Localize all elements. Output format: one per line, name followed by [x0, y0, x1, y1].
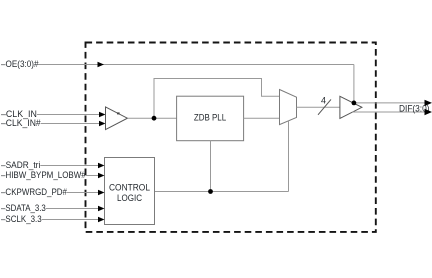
svg-text:LOGIC: LOGIC [117, 193, 142, 203]
arrowhead on OE wire [98, 62, 105, 67]
svg-text:–SADR_tri: –SADR_tri [1, 160, 40, 170]
wire DIF complement output [353, 111, 426, 113]
svg-text:–CLK_IN#: –CLK_IN# [1, 118, 41, 128]
svg-text:–SCLK_3.3: –SCLK_3.3 [1, 214, 42, 224]
wire control logic output bus [155, 191, 289, 193]
input buffer (differential receiver) [106, 107, 128, 130]
arrowhead SADR_tri [98, 163, 105, 168]
wire CLK_IN [37, 114, 100, 116]
svg-text:–SDATA_3.3: –SDATA_3.3 [1, 203, 46, 213]
wire SADR_tri [40, 165, 99, 167]
wire HIBW_BYPM_LOBW# [86, 175, 99, 177]
wire bypass path up and over to mux [154, 79, 280, 119]
mux [280, 90, 297, 125]
junction dot control to PLL [208, 189, 213, 194]
arrowhead CLK_IN [99, 112, 106, 117]
wire ZDB PLL control drop [210, 141, 212, 192]
arrowhead SDATA_3.3 [98, 206, 105, 211]
wire input buffer output to ZDB PLL [127, 117, 176, 119]
junction dot OE to output buffer enable [352, 101, 357, 106]
arrowhead DIF true [425, 100, 432, 106]
svg-text:4: 4 [321, 96, 326, 106]
bus slash [318, 99, 331, 114]
wire SCLK_3.3 [42, 219, 99, 221]
arrowhead SCLK_3.3 [98, 217, 105, 222]
output buffer [340, 96, 362, 118]
wire CLK_IN# [41, 123, 100, 125]
hysteresis mark inside input buffer [117, 112, 120, 114]
arrowhead DIF complement [425, 109, 432, 115]
svg-text:–CKPWRGD_PD#: –CKPWRGD_PD# [1, 187, 67, 197]
svg-text:–OE(3:0)#: –OE(3:0)# [1, 59, 39, 69]
wire CKPWRGD_PD# [67, 192, 99, 194]
ZDB PLL block [177, 96, 244, 141]
wire OE vertical drop to output buffer [353, 65, 355, 103]
wire DIF true output [354, 102, 425, 104]
wire SDATA_3.3 [46, 208, 99, 210]
arrowhead CKPWRGD_PD# [98, 190, 105, 195]
wire OE horizontal [38, 64, 354, 66]
svg-text:CONTROL: CONTROL [109, 183, 150, 193]
svg-text:ZDB PLL: ZDB PLL [194, 113, 226, 123]
wire mux select from control logic [288, 121, 290, 192]
wire ZDB PLL output to mux [244, 117, 280, 119]
arrowhead CLK_IN# [99, 121, 106, 126]
svg-text:–HIBW_BYPM_LOBW#: –HIBW_BYPM_LOBW# [1, 170, 86, 180]
wire mux output to output buffer [297, 106, 340, 108]
control logic block [105, 158, 155, 225]
dashed chip boundary box [86, 43, 376, 232]
junction dot clock split [152, 116, 157, 121]
arrowhead HIBW_BYPM_LOBW# [98, 173, 105, 178]
